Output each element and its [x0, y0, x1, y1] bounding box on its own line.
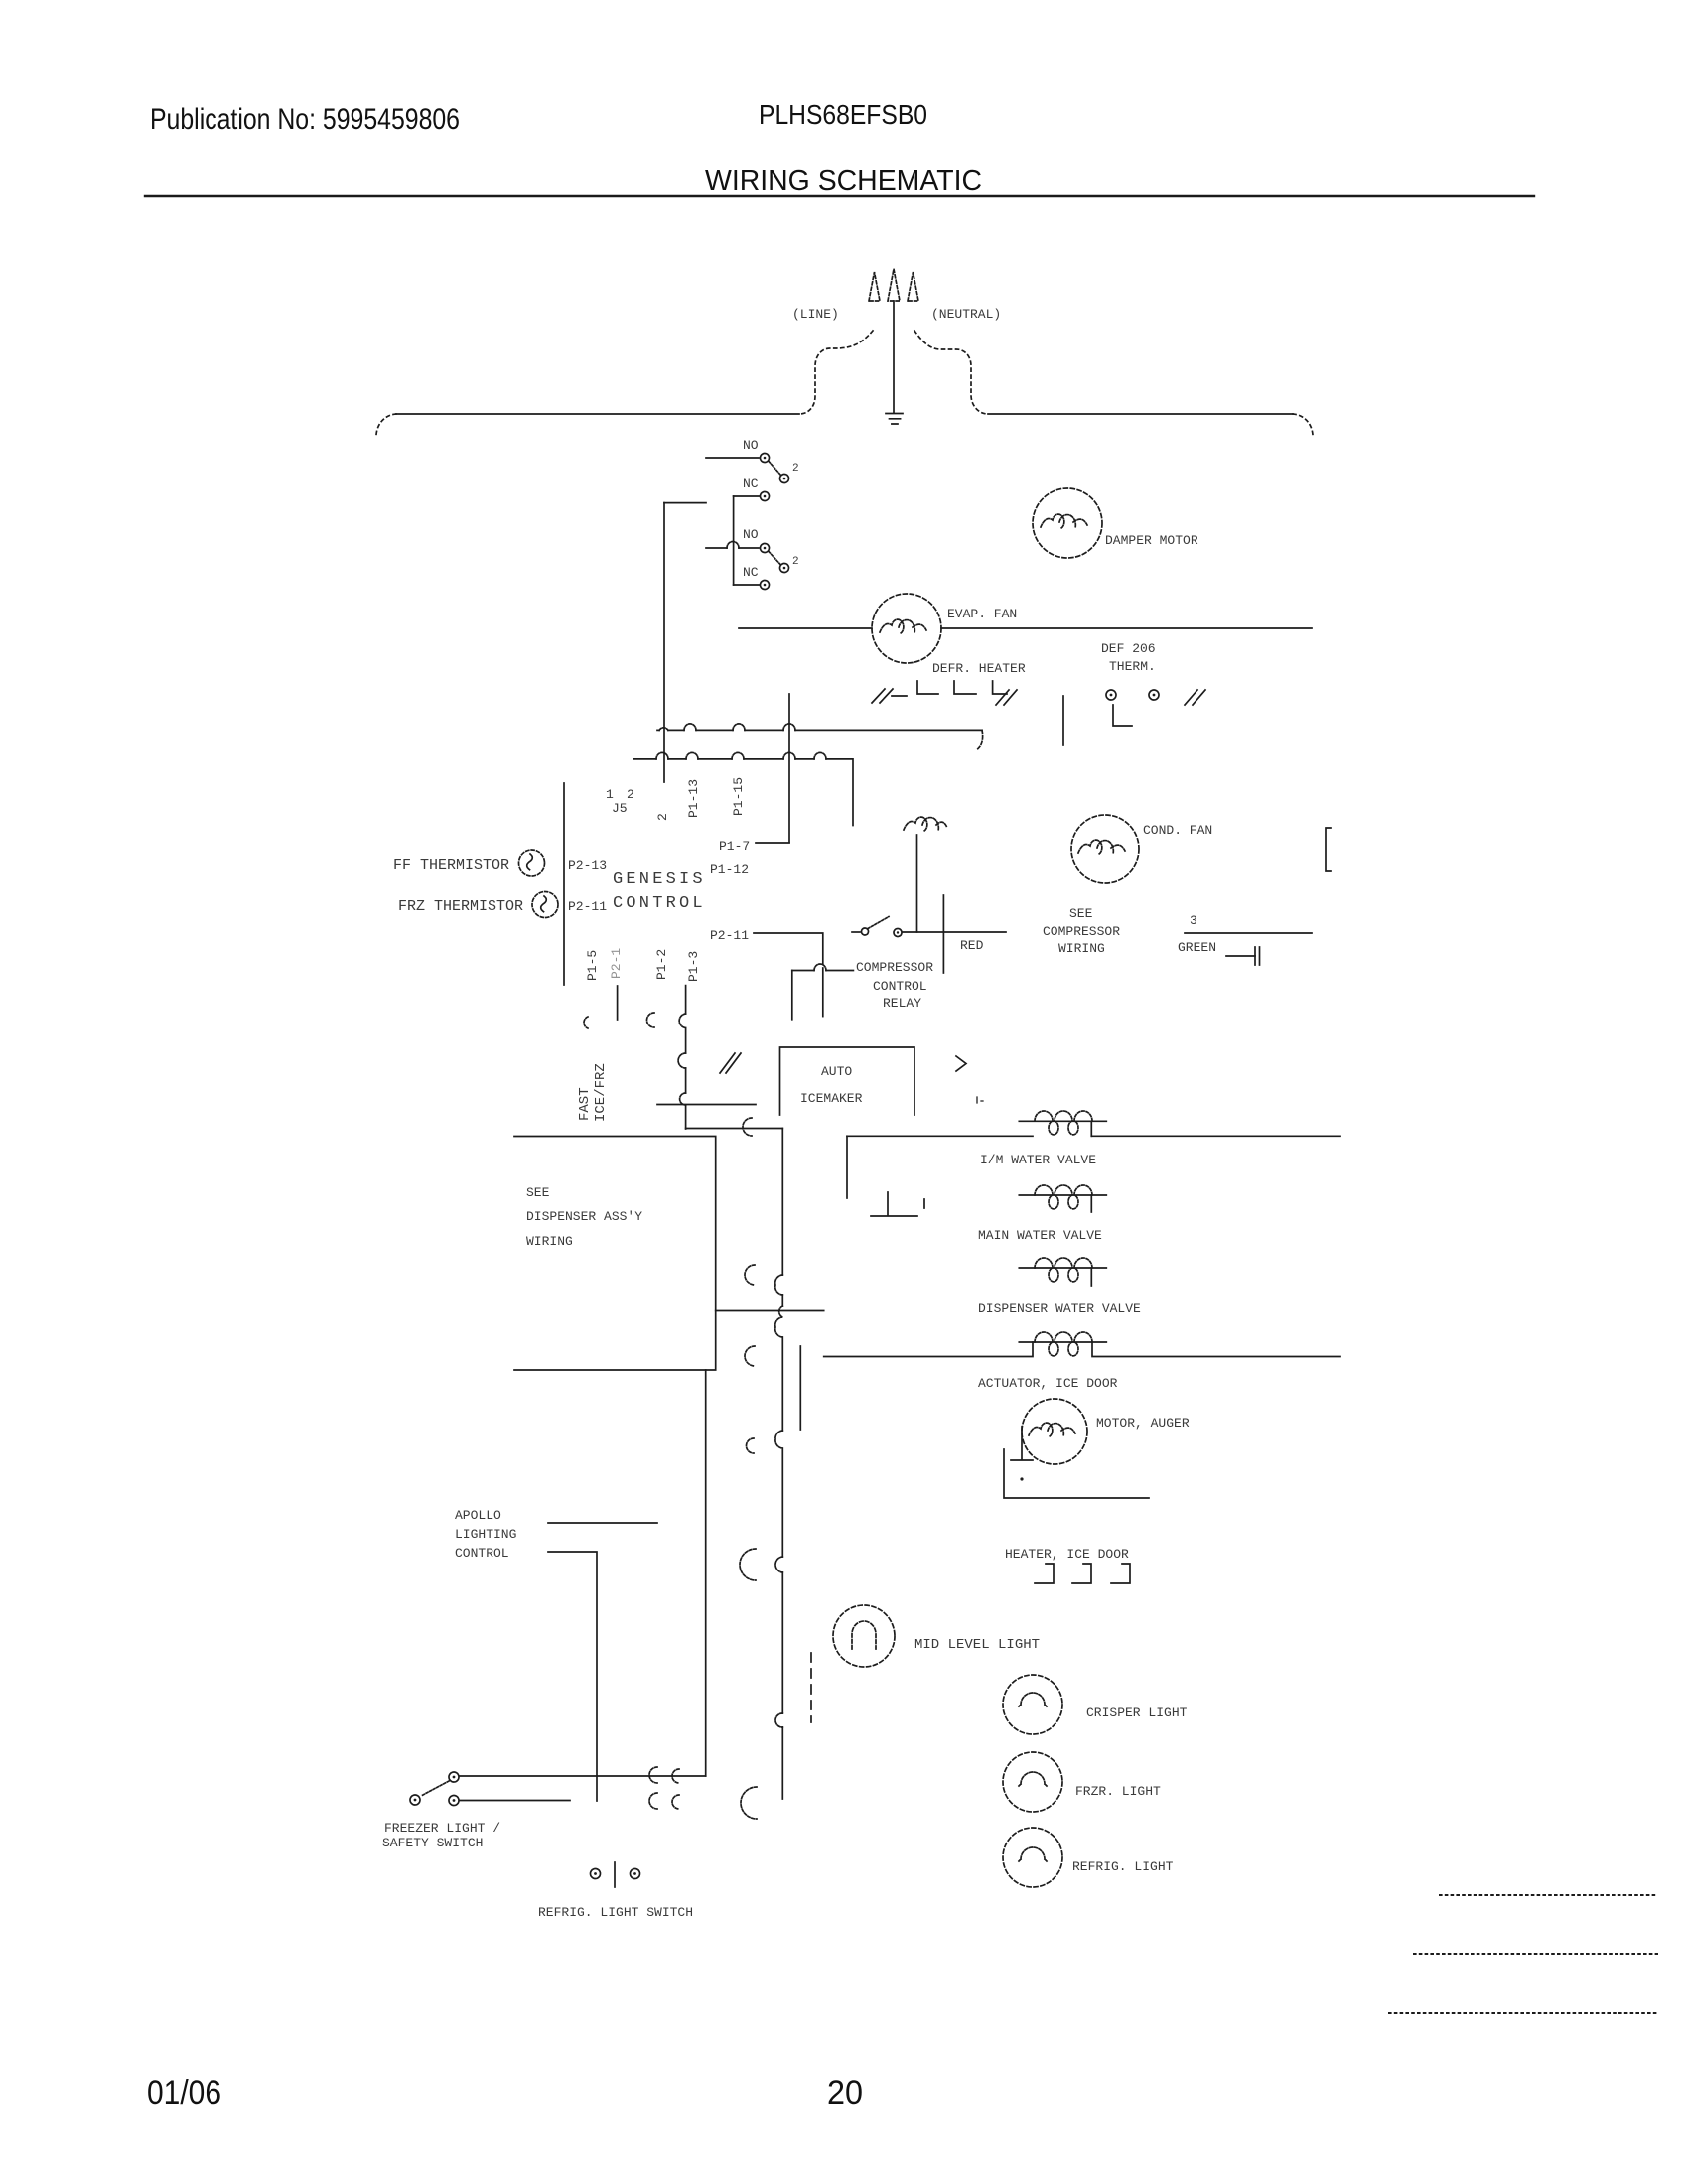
svg-text:2: 2 — [792, 463, 799, 475]
title WIRING SCHEMATIC — [705, 165, 982, 197]
svg-text:PLHS68EFSB0: PLHS68EFSB0 — [759, 99, 927, 130]
freezer switch contact B — [449, 1796, 459, 1806]
line 1 end curl — [976, 730, 983, 750]
label P1-7 — [719, 839, 750, 854]
freezer switch contact A — [410, 1795, 420, 1805]
auger motor tee — [1011, 1427, 1033, 1460]
left supply bus wire — [396, 413, 799, 415]
svg-text:P2-13: P2-13 — [568, 858, 607, 873]
switch 2 feed wire with crossover hop — [706, 547, 759, 549]
label P1-13 rotated — [686, 779, 701, 818]
label ICE/FRZ rotated — [593, 1063, 609, 1122]
label NO switch 2 — [743, 527, 759, 542]
NC bracket wire — [733, 496, 735, 585]
switch 2 thrown contact — [780, 564, 789, 573]
svg-text:COND. FAN: COND. FAN — [1143, 823, 1212, 838]
svg-text:GENESIS: GENESIS — [613, 870, 706, 888]
label SEE — [1069, 906, 1093, 921]
connector hook C2 — [745, 1346, 755, 1366]
svg-text:MID LEVEL LIGHT: MID LEVEL LIGHT — [914, 1637, 1040, 1653]
trunk wire from J5 pin 2 — [663, 503, 665, 782]
label REFRIG. LIGHT SWITCH — [538, 1905, 693, 1920]
label P2-11 — [568, 899, 607, 914]
frzr light filament — [1019, 1772, 1047, 1786]
svg-text:WIRING: WIRING — [1058, 941, 1105, 956]
label FRZ THERMISTOR — [398, 898, 523, 915]
svg-text:FF THERMISTOR: FF THERMISTOR — [393, 857, 509, 874]
label P1-15 rotated — [731, 777, 746, 816]
label GREEN — [1178, 940, 1216, 955]
svg-text:2: 2 — [792, 556, 799, 568]
main water valve coil — [1035, 1185, 1092, 1209]
main water valve coil line — [1019, 1194, 1106, 1196]
svg-text:J5: J5 — [612, 801, 628, 816]
i/m valve right jog — [1090, 1121, 1092, 1136]
line 1 hop arcs — [659, 724, 795, 731]
svg-text:P1-12: P1-12 — [710, 862, 749, 877]
P1-3 wire with connector bumps — [685, 986, 687, 1129]
label WIRING — [1058, 941, 1105, 956]
auger motor winding — [1029, 1423, 1075, 1436]
crisper light circle — [1003, 1675, 1062, 1734]
switch 1 common contact — [761, 454, 770, 463]
relay switch output wire — [903, 931, 1007, 933]
label FRZR. LIGHT — [1075, 1784, 1161, 1799]
small mark — [977, 1097, 983, 1103]
relay switch dash — [852, 931, 860, 933]
svg-text:HEATER, ICE DOOR: HEATER, ICE DOOR — [1005, 1547, 1129, 1562]
connector hook C3 — [747, 1438, 754, 1453]
label CRISPER LIGHT — [1086, 1706, 1188, 1720]
apollo wire lower — [548, 1552, 597, 1801]
green ground bars — [1255, 947, 1260, 965]
label APOLLO — [455, 1508, 501, 1523]
svg-text:2: 2 — [655, 813, 670, 821]
footer date — [147, 2074, 221, 2112]
trunk from dispenser box — [705, 1370, 707, 1776]
label FAST rotated — [577, 1087, 593, 1121]
svg-text:CONTROL: CONTROL — [873, 979, 927, 994]
switch 2 NC contact — [761, 581, 770, 590]
label COMPRESSOR — [856, 960, 933, 975]
auger ground wire — [1004, 1449, 1149, 1498]
svg-text:DISPENSER ASS'Y: DISPENSER ASS'Y — [526, 1209, 642, 1224]
svg-text:REFRIG. LIGHT: REFRIG. LIGHT — [1072, 1859, 1174, 1874]
auger motor circle — [1022, 1399, 1087, 1464]
svg-text:RED: RED — [960, 938, 984, 953]
label RED — [960, 938, 984, 953]
relay feed vertical wire — [791, 971, 793, 1020]
evap fan motor winding — [880, 619, 926, 633]
dashed stub wire — [810, 1653, 812, 1722]
genesis control border — [563, 783, 565, 985]
ice door heater element 1 — [1035, 1564, 1054, 1583]
svg-text:LIGHTING: LIGHTING — [455, 1527, 516, 1542]
mid level light filament — [852, 1621, 876, 1649]
dispenser water valve coil line — [1019, 1267, 1106, 1269]
svg-text:P2-11: P2-11 — [710, 928, 749, 943]
freezer light switch common — [449, 1772, 459, 1782]
svg-text:DAMPER MOTOR: DAMPER MOTOR — [1105, 533, 1198, 548]
break slashes near icemaker — [720, 1053, 741, 1073]
label WIRING dispenser — [526, 1234, 573, 1249]
wire stub near heater — [1062, 696, 1064, 745]
label P1-5 rotated — [585, 950, 600, 981]
condenser fan circle — [1071, 815, 1139, 883]
right supply bus wire — [988, 413, 1293, 415]
central trunk wire with connectors — [781, 1129, 783, 1800]
label P1-2 rotated — [654, 949, 669, 980]
P1-2 wire horizontal — [657, 1104, 756, 1106]
condenser fan winding — [1078, 840, 1125, 854]
svg-text:ICEMAKER: ICEMAKER — [800, 1091, 863, 1106]
svg-text:P1-13: P1-13 — [686, 779, 701, 818]
junction dot — [1020, 1477, 1023, 1480]
label 2 switch 2 — [792, 556, 799, 568]
label 3 — [1190, 913, 1197, 928]
relay coil wire — [916, 835, 918, 932]
svg-text:P1-15: P1-15 — [731, 777, 746, 816]
label NC switch 1 — [743, 477, 759, 491]
label MOTOR, AUGER — [1096, 1416, 1190, 1431]
label FREEZER LIGHT / — [384, 1821, 500, 1836]
refrig light circle — [1003, 1828, 1062, 1887]
compressor relay coil — [904, 817, 947, 831]
connector hook C1 — [745, 1265, 755, 1285]
left bus dashed corner — [376, 414, 396, 435]
label pin 2 — [627, 787, 634, 802]
svg-text:SAFETY SWITCH: SAFETY SWITCH — [382, 1836, 483, 1850]
label NO switch 1 — [743, 438, 759, 453]
title rule line — [145, 195, 1534, 197]
svg-text:FAST: FAST — [577, 1087, 593, 1121]
svg-text:FRZ THERMISTOR: FRZ THERMISTOR — [398, 898, 523, 915]
damper motor circle — [1033, 488, 1102, 558]
svg-text:CONTROL: CONTROL — [455, 1546, 509, 1561]
svg-text:NC: NC — [743, 565, 759, 580]
trunk wire P1-7 node — [788, 694, 790, 843]
label SEE — [526, 1185, 550, 1200]
svg-text:P1-2: P1-2 — [654, 949, 669, 980]
lower bus right segment — [1091, 1135, 1340, 1137]
P2-11 wire — [754, 933, 823, 964]
svg-text:NO: NO — [743, 438, 759, 453]
svg-text:20: 20 — [827, 2074, 863, 2112]
parallel stub wire — [799, 1346, 801, 1430]
svg-text:COMPRESSOR: COMPRESSOR — [856, 960, 933, 975]
green wire — [1185, 932, 1312, 934]
break chevron right of icemaker — [956, 1056, 966, 1071]
switch 2 common contact — [761, 544, 770, 553]
svg-text:WIRING SCHEMATIC: WIRING SCHEMATIC — [705, 165, 982, 197]
icemaker feed connector hook — [743, 1118, 752, 1136]
svg-text:I/M WATER VALVE: I/M WATER VALVE — [980, 1153, 1096, 1167]
defrost heater element meander — [917, 681, 1007, 694]
dispenser tap wire — [716, 1310, 824, 1312]
line 2 hop arcs — [656, 752, 826, 758]
switch 2 arm — [769, 552, 780, 565]
crossover line 1 with hops — [657, 729, 982, 731]
switch 1 arm — [769, 462, 780, 476]
svg-text:APOLLO: APOLLO — [455, 1508, 501, 1523]
evap fan supply wire left — [739, 627, 872, 629]
label I/M WATER VALVE — [980, 1153, 1096, 1167]
svg-text:NO: NO — [743, 527, 759, 542]
actuator feed wire left — [824, 1342, 1033, 1357]
green ground lead — [1226, 955, 1255, 957]
footer page number — [827, 2074, 863, 2112]
bus drop wire — [846, 1136, 848, 1198]
mid level light circle — [833, 1605, 895, 1667]
neutral-side dashed cord — [914, 331, 988, 414]
actuator ice door coil — [1035, 1332, 1092, 1356]
svg-text:FREEZER LIGHT /: FREEZER LIGHT / — [384, 1821, 500, 1836]
label CONTROL — [613, 894, 706, 913]
power plug prong left — [869, 272, 880, 301]
label MAIN WATER VALVE — [978, 1228, 1102, 1243]
label J5 — [612, 801, 628, 816]
refrig light filament — [1019, 1847, 1047, 1861]
crisper light filament — [1019, 1693, 1047, 1706]
apollo wire upper — [548, 1522, 657, 1524]
svg-text:NC: NC — [743, 477, 759, 491]
svg-text:P1-3: P1-3 — [686, 951, 701, 982]
svg-text:CRISPER LIGHT: CRISPER LIGHT — [1086, 1706, 1188, 1720]
svg-text:EVAP. FAN: EVAP. FAN — [947, 607, 1017, 621]
relay feed wire with hop — [792, 970, 854, 972]
defrost heater right break marks — [996, 690, 1017, 705]
svg-text:01/06: 01/06 — [147, 2074, 221, 2112]
label DISPENSER ASS'Y — [526, 1209, 642, 1224]
defrost thermostat terminal A — [1106, 690, 1116, 700]
frzr light circle — [1003, 1752, 1062, 1812]
connector hook C5 — [741, 1787, 757, 1819]
switch 2 NC lead — [734, 584, 760, 586]
svg-text:1: 1 — [606, 787, 614, 802]
defrost thermostat lead wire — [1113, 705, 1132, 726]
svg-text:ICE/FRZ: ICE/FRZ — [593, 1063, 609, 1122]
power plug prong right — [908, 272, 918, 301]
P1-2 connector hook — [647, 1013, 655, 1027]
i/m water valve coil — [1035, 1111, 1092, 1135]
label (LINE) — [792, 307, 839, 322]
ice door heater element 3 — [1111, 1564, 1130, 1583]
refrig switch divider — [614, 1862, 616, 1887]
label RELAY — [883, 996, 921, 1011]
svg-text:MOTOR, AUGER: MOTOR, AUGER — [1096, 1416, 1190, 1431]
svg-text:2: 2 — [627, 787, 634, 802]
label P2-11 output — [710, 928, 749, 943]
label P2-13 — [568, 858, 607, 873]
svg-text:GREEN: GREEN — [1178, 940, 1216, 955]
evap fan supply wire right — [941, 627, 1312, 629]
relay switch arm — [868, 917, 889, 929]
label (NEUTRAL) — [931, 307, 1001, 322]
svg-text:P1-7: P1-7 — [719, 839, 750, 854]
FRZ thermistor circle — [532, 892, 558, 918]
main valve stub — [1090, 1195, 1092, 1212]
label COND. FAN — [1143, 823, 1212, 838]
svg-text:SEE: SEE — [526, 1185, 550, 1200]
svg-text:THERM.: THERM. — [1109, 659, 1156, 674]
label GENESIS — [613, 870, 706, 888]
i/m water valve coil line — [1019, 1120, 1106, 1122]
thermostat right break marks — [1185, 690, 1205, 705]
svg-text:P2-1: P2-1 — [609, 948, 624, 979]
refrig light switch contact A — [591, 1869, 601, 1879]
label FF THERMISTOR — [393, 857, 509, 874]
relay switch pivot — [894, 929, 902, 937]
label pin 2 rotated — [655, 813, 670, 821]
header model number — [759, 99, 927, 130]
label P2-1 rotated — [609, 948, 624, 979]
label ICEMAKER — [800, 1091, 863, 1106]
label EVAP. FAN — [947, 607, 1017, 621]
svg-text:SEE: SEE — [1069, 906, 1093, 921]
hook pair lower — [649, 1793, 679, 1809]
label 2 switch 1 — [792, 463, 799, 475]
P1-5 connector hook — [584, 1017, 588, 1028]
svg-text:DEF 206: DEF 206 — [1101, 641, 1156, 656]
ground stem wire — [893, 301, 895, 413]
label LIGHTING — [455, 1527, 516, 1542]
actuator coil line — [1019, 1341, 1106, 1343]
svg-text:DISPENSER WATER VALVE: DISPENSER WATER VALVE — [978, 1301, 1141, 1316]
dotted leader 1 — [1440, 1894, 1658, 1896]
refrig light switch contact B — [631, 1869, 640, 1879]
defrost thermostat terminal B — [1149, 690, 1159, 700]
label AUTO — [821, 1064, 852, 1079]
svg-text:REFRIG. LIGHT SWITCH: REFRIG. LIGHT SWITCH — [538, 1905, 693, 1920]
svg-text:DEFR. HEATER: DEFR. HEATER — [932, 661, 1026, 676]
right edge bracket — [1326, 828, 1331, 871]
freezer switch wire lower — [460, 1800, 571, 1802]
power plug prong middle — [888, 269, 900, 301]
label SAFETY SWITCH — [382, 1836, 483, 1850]
svg-text:(LINE): (LINE) — [792, 307, 839, 322]
P1-7 wire — [756, 842, 789, 844]
earth ground symbol — [886, 414, 903, 425]
label ACTUATOR, ICE DOOR — [978, 1376, 1118, 1391]
label pin 1 — [606, 787, 614, 802]
label DEFR. HEATER — [932, 661, 1026, 676]
connector hook C4 — [740, 1549, 756, 1580]
svg-text:WIRING: WIRING — [526, 1234, 573, 1249]
dotted leader 3 — [1389, 2012, 1656, 2014]
label NC switch 2 — [743, 565, 759, 580]
freezer switch arm — [421, 1781, 449, 1796]
label P1-3 rotated — [686, 951, 701, 982]
freezer switch wire upper — [460, 1775, 706, 1777]
switch 1 thrown contact — [780, 475, 789, 483]
switch 1 NC lead — [734, 495, 760, 497]
label THERM. — [1109, 659, 1156, 674]
label CONTROL — [873, 979, 927, 994]
label HEATER, ICE DOOR — [1005, 1547, 1129, 1562]
switch 1 feed wire — [706, 457, 759, 459]
svg-text:CONTROL: CONTROL — [613, 894, 706, 913]
FF thermistor circle — [519, 850, 545, 876]
valve common tee — [871, 1192, 924, 1216]
auto icemaker box — [780, 1047, 915, 1115]
line-side dashed cord — [799, 331, 873, 414]
switch 1 NC contact — [761, 492, 770, 501]
ice door heater element 2 — [1072, 1564, 1091, 1583]
label COMPRESSOR wiring — [1043, 924, 1120, 939]
crossing wire at relay — [942, 895, 944, 973]
svg-text:Publication No: 5995459806: Publication No: 5995459806 — [150, 103, 460, 136]
dotted leader 2 — [1414, 1953, 1657, 1955]
icemaker feed wire — [686, 1128, 783, 1130]
label P1-12 — [710, 862, 749, 877]
FRZ thermistor element — [541, 896, 547, 912]
FF thermistor element — [527, 854, 533, 870]
header publication number — [150, 103, 460, 136]
svg-text:(NEUTRAL): (NEUTRAL) — [931, 307, 1001, 322]
label DAMPER MOTOR — [1105, 533, 1198, 548]
svg-text:P2-11: P2-11 — [568, 899, 607, 914]
trunk to switch connector wire — [664, 502, 706, 504]
P2-1 pin wire — [617, 986, 619, 1020]
label DEF 206 — [1101, 641, 1156, 656]
dispenser valve stub — [1090, 1268, 1092, 1286]
svg-text:AUTO: AUTO — [821, 1064, 852, 1079]
svg-text:RELAY: RELAY — [883, 996, 921, 1011]
label DISPENSER WATER VALVE — [978, 1301, 1141, 1316]
dispenser water valve coil — [1035, 1258, 1092, 1282]
defrost heater left break marks — [872, 689, 907, 703]
P2-11 wire lower — [822, 968, 824, 1017]
actuator feed wire right — [1092, 1342, 1340, 1357]
svg-text:MAIN WATER VALVE: MAIN WATER VALVE — [978, 1228, 1102, 1243]
label CONTROL apollo — [455, 1546, 509, 1561]
hook pair upper — [649, 1767, 679, 1783]
label REFRIG. LIGHT — [1072, 1859, 1174, 1874]
relay switch hinge circle — [862, 928, 869, 935]
svg-text:ACTUATOR, ICE DOOR: ACTUATOR, ICE DOOR — [978, 1376, 1118, 1391]
lower bus left segment — [847, 1135, 1033, 1137]
svg-text:3: 3 — [1190, 913, 1197, 928]
damper motor winding — [1041, 514, 1087, 528]
evap fan motor circle — [872, 594, 941, 663]
right bus dashed corner — [1293, 414, 1313, 435]
svg-text:FRZR. LIGHT: FRZR. LIGHT — [1075, 1784, 1161, 1799]
dispenser assy box — [514, 1137, 716, 1371]
label MID LEVEL LIGHT — [914, 1637, 1040, 1653]
crossover line 2 with hops — [633, 759, 853, 826]
svg-text:P1-5: P1-5 — [585, 950, 600, 981]
svg-text:COMPRESSOR: COMPRESSOR — [1043, 924, 1120, 939]
